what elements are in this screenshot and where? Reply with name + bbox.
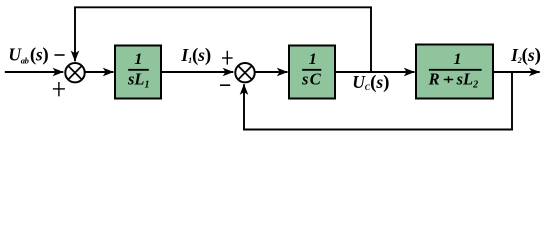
- wire: top feedback from node Uc pick-off to summing junction S1: [75, 7, 371, 72]
- svg-text:I1(s): I1(s): [180, 45, 211, 66]
- wire: input Uab(s) into summing junction S1: [5, 71, 64, 73]
- block G3: 1/(R+sL2): [416, 45, 493, 99]
- wire: block G2 to block G3 with Uc pick-off node: [335, 71, 415, 73]
- svg-text:1: 1: [454, 51, 462, 68]
- wire: bottom feedback from node I2 pick-off to summing junction S2: [244, 72, 512, 130]
- sign plus at S2 top-left: [222, 51, 233, 65]
- block G1: 1/(sL1): [115, 46, 161, 99]
- svg-text:sC: sC: [301, 70, 322, 89]
- svg-text:1: 1: [309, 51, 317, 68]
- svg-text:R: R: [428, 70, 440, 89]
- summing junction S2: [235, 63, 254, 82]
- sign minus at S1 top-left: [55, 54, 65, 56]
- wire: block G1 to summing junction S2: [161, 71, 233, 73]
- wire: output I2(s): [493, 71, 540, 73]
- wire: S1 to block G1: [86, 71, 114, 73]
- sign plus at S1 bottom-left: [53, 82, 65, 96]
- svg-text:UC(s): UC(s): [352, 72, 389, 93]
- sign minus at S2 bottom-left: [220, 84, 230, 86]
- svg-text:1: 1: [134, 51, 142, 68]
- svg-text:Uab (s): Uab (s): [8, 44, 48, 65]
- wire: S2 to block G2: [256, 71, 288, 73]
- block G2: 1/(sC): [289, 46, 335, 99]
- summing junction S1: [65, 63, 84, 82]
- svg-text:I2(s): I2(s): [510, 45, 541, 66]
